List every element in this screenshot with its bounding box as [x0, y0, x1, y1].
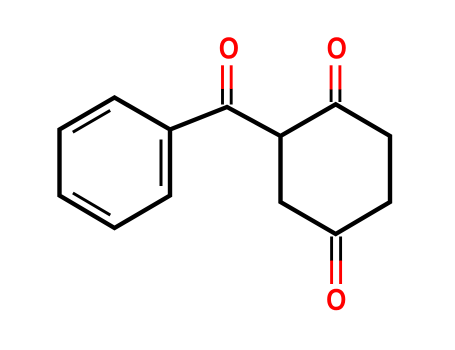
ketone C7=O1 double bond (red upper half) [223, 65, 232, 89]
svg-text:O: O [326, 283, 346, 318]
bond carbonyl C7 to ring C2 [227, 107, 281, 136]
double bond inner line (bottom-left edge) [73, 193, 110, 215]
ketone C1=O2 double bond (red upper half) [331, 65, 340, 89]
ketone C1=O2 double bond (black lower half) [331, 89, 340, 102]
right ring (cyclohexane-1,4-dione) [281, 104, 391, 234]
bond phenyl UR to carbonyl C7 [170, 107, 227, 130]
ketone C4=O3 double bond (black upper half) [332, 237, 341, 262]
double bond inner line (right edge) [160, 140, 163, 187]
wire: right ring outline [281, 104, 391, 234]
benzene ring [60, 98, 171, 229]
ketone C4=O3 double bond (red lower half) [332, 261, 341, 285]
svg-text:O: O [327, 32, 347, 67]
atom O3 label [326, 283, 346, 318]
double bond inner line (top-left edge) [73, 110, 110, 132]
svg-text:O: O [219, 32, 239, 67]
atom O1 label [219, 32, 239, 67]
atom O2 label [327, 32, 347, 67]
ketone C7=O1 double bond (black lower half) [223, 89, 232, 105]
wire: phenyl ring outline [60, 98, 171, 229]
